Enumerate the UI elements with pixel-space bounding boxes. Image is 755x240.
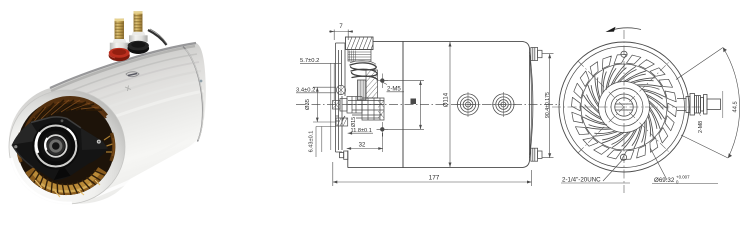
- stator hatch block: [346, 37, 374, 50]
- svg-text:6.43±0.1: 6.43±0.1: [309, 131, 315, 153]
- top connecting line from section: [373, 40, 403, 42]
- left edge vertical of body: [402, 41, 404, 167]
- svg-text:11.8±0.1: 11.8±0.1: [351, 128, 372, 134]
- shaft assembly right: [677, 94, 721, 116]
- hub bearing: [32, 123, 79, 170]
- svg-text:177: 177: [429, 175, 440, 182]
- rear cover seam line: [530, 55, 532, 155]
- bolt holes: [621, 51, 627, 57]
- dim 90.4±0.175: [542, 54, 554, 158]
- body top dark edge band: [50, 43, 196, 88]
- main centerline: [296, 104, 560, 106]
- ring circles: [581, 64, 667, 150]
- motor body side view rectangle: [403, 41, 530, 167]
- motor body silhouette: [9, 43, 206, 204]
- rear dome bulge: [530, 52, 533, 158]
- flange bolt: [336, 85, 345, 94]
- dim 177: [333, 162, 532, 186]
- svg-text:32: 32: [359, 143, 366, 149]
- body logo sticker: [126, 72, 139, 77]
- blades: [582, 65, 667, 150]
- M5 bolt dots: [380, 78, 384, 82]
- rear cap: [183, 47, 203, 142]
- terminal stud side profile top-right: [531, 48, 542, 61]
- flange foot hatch: [336, 118, 348, 126]
- 2-M5 label + leader: [383, 83, 387, 85]
- svg-text:2-1/4"-20UNC: 2-1/4"-20UNC: [562, 177, 601, 184]
- leader Ø69.32: [651, 149, 668, 181]
- front face rim: [9, 90, 125, 204]
- bottom connecting line from section: [348, 151, 403, 168]
- M5 spacing dim: [385, 81, 425, 130]
- bottom golden windings: [30, 170, 103, 190]
- svg-text:90.4±0.175: 90.4±0.175: [545, 92, 551, 118]
- slot ring: [572, 55, 677, 160]
- lamination block: [348, 50, 371, 62]
- angle dim 44.5: [676, 48, 728, 159]
- commutator vertical hatch: [358, 80, 367, 100]
- winding ring (copper): [18, 99, 115, 195]
- centerlines: [552, 106, 700, 108]
- outer circles: [559, 42, 689, 172]
- side windings: [18, 133, 21, 162]
- svg-text:2-M8: 2-M8: [698, 121, 704, 133]
- svg-text:Ø15: Ø15: [351, 117, 357, 127]
- terminal stud right (black): [128, 11, 150, 54]
- svg-text:Ø114: Ø114: [444, 92, 450, 107]
- dark cable streak right of terminals: [148, 30, 167, 45]
- bearing wall diagonal hatch: [366, 70, 378, 98]
- body small screw mark: [125, 86, 131, 92]
- winding end-turn loops: [350, 63, 378, 80]
- body axial streak highlights: [52, 54, 204, 196]
- terminal stud left (red): [109, 19, 130, 62]
- terminal stud side profile bottom-right: [531, 148, 542, 161]
- copper winding texture: top X-laced strands: [17, 98, 114, 197]
- black end bracket: [12, 117, 108, 180]
- flange plate: [336, 43, 346, 152]
- dim Ø114: [449, 42, 451, 167]
- bottom stud boss on section: [340, 151, 348, 159]
- leader 2-1/4-20UNC: [603, 160, 622, 181]
- shaft stepped profile: [333, 97, 385, 121]
- bracket screws: [97, 140, 101, 144]
- svg-text:Ø69.32: Ø69.32: [654, 177, 675, 184]
- rotation arrow: [610, 28, 641, 31]
- stud circles on body: [457, 94, 514, 115]
- rear cap screw dot: [200, 80, 203, 83]
- svg-text:7: 7: [339, 24, 343, 30]
- svg-text:Ø35: Ø35: [305, 99, 311, 110]
- svg-text:44.5: 44.5: [732, 101, 739, 113]
